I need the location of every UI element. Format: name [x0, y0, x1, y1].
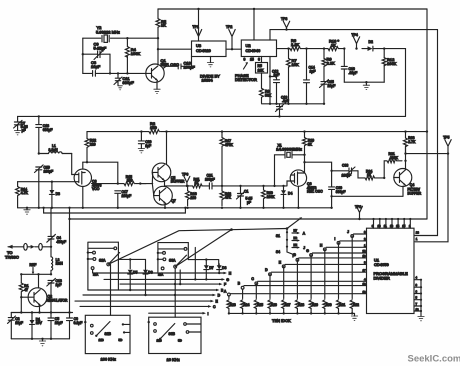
svg-text:100μF: 100μF — [122, 194, 132, 198]
wire: feedback vertical A — [426, 9, 428, 219]
wire: S3B riser — [174, 268, 176, 317]
capacitor C18 — [36, 116, 53, 153]
svg-text:23: 23 — [416, 231, 420, 235]
svg-text:R26: R26 — [271, 303, 277, 307]
svg-text:600μF: 600μF — [43, 128, 53, 132]
capacitor C12 — [270, 69, 280, 105]
wire: to Q5/Q7 bases — [140, 172, 154, 195]
capacitor C5 — [48, 313, 63, 339]
svg-text:R25: R25 — [257, 303, 263, 307]
svg-text:CD4059: CD4059 — [374, 262, 389, 267]
svg-text:CD4046: CD4046 — [246, 48, 261, 53]
svg-text:D7: D7 — [209, 266, 213, 270]
svg-text:G: G — [306, 249, 309, 253]
svg-text:47: 47 — [24, 288, 28, 292]
wire: top-right corner down to rail — [384, 49, 405, 117]
wire: U2 pin13 down — [269, 57, 271, 104]
capacitor C21 — [202, 174, 222, 189]
svg-text:R32: R32 — [353, 303, 359, 307]
svg-text:J: J — [347, 230, 349, 234]
svg-text:H5: H5 — [294, 243, 298, 247]
capacitor C9 (trimmer) — [83, 42, 110, 60]
svg-text:100K: 100K — [267, 195, 276, 199]
wire: U1 right pin stubs to output bus — [414, 280, 421, 311]
svg-text:H6: H6 — [294, 236, 298, 240]
svg-text:R23: R23 — [230, 303, 236, 307]
label R2 — [150, 121, 157, 130]
svg-text:pF: pF — [22, 129, 26, 133]
test point TP4 — [352, 33, 360, 50]
svg-text:400pF: 400pF — [57, 240, 67, 244]
wire: power input with feedthroughs — [8, 243, 51, 250]
bus wire B — [88, 289, 218, 291]
svg-text:10K: 10K — [258, 68, 265, 72]
resistor R9 — [322, 47, 335, 66]
svg-text:DIVIDER: DIVIDER — [374, 275, 390, 280]
wire: U1 top pin stubs — [374, 219, 411, 228]
svg-text:TP8: TP8 — [355, 205, 361, 209]
transistor Q7 — [154, 186, 176, 205]
pin numbers U1 right — [416, 276, 420, 312]
wire: ladder common rail — [229, 312, 355, 314]
svg-text:470K: 470K — [225, 143, 234, 147]
svg-text:R29: R29 — [312, 303, 318, 307]
capacitor C10 — [163, 61, 195, 70]
wire: C10 to U3 — [191, 57, 193, 67]
wire: D2/R12 bottom return — [344, 81, 384, 83]
wire: S2A wiper route — [108, 229, 287, 265]
wire: Q5 collector to rail — [166, 132, 168, 165]
pin numbers U1 top — [372, 224, 411, 228]
svg-text:HET. OSC: HET. OSC — [307, 190, 323, 194]
diode D5 — [118, 258, 145, 291]
svg-text:100K: 100K — [387, 61, 397, 66]
svg-text:10V: 10V — [36, 321, 43, 325]
svg-text:10K: 10K — [292, 62, 299, 67]
svg-text:1μF: 1μF — [274, 73, 280, 77]
resistor R11 — [187, 178, 202, 188]
resistor R18 — [220, 185, 232, 206]
resistor R7 — [287, 47, 299, 105]
svg-text:15: 15 — [402, 224, 406, 228]
diode D8 — [217, 264, 227, 274]
wire: S3A wiper diagonal — [175, 230, 231, 267]
svg-text:S1: S1 — [276, 234, 280, 238]
crystal X1 — [273, 143, 305, 187]
resistor R27 with tap E — [279, 260, 367, 314]
wire: feedback vertical B — [415, 30, 438, 236]
pin numbers U2 — [244, 58, 261, 62]
switch S1 wiper to divider bus — [276, 217, 302, 238]
wire: stub line below rail — [44, 208, 186, 213]
svg-text:0.1μF: 0.1μF — [74, 321, 83, 325]
ground (Q1 emitter) — [154, 81, 160, 93]
svg-text:10 KHz: 10 KHz — [167, 357, 180, 362]
wire: Q7 emitter to rail — [164, 204, 166, 208]
resistor R22 — [85, 132, 96, 163]
op-amp U2 CD4046 — [241, 40, 276, 57]
svg-text:12: 12 — [416, 308, 420, 312]
diode D4 — [281, 185, 292, 208]
op-amp U1 CD4059 programmable divider — [367, 228, 415, 313]
label REF with arrow — [30, 263, 37, 274]
wire: Q2 emitter down — [39, 306, 41, 313]
svg-text:100pF: 100pF — [184, 64, 196, 69]
resistor R28 with tap F — [293, 254, 367, 315]
diode D3 — [49, 181, 60, 208]
svg-text:REGULATOR: REGULATOR — [47, 299, 68, 303]
ground (main rail) — [24, 208, 30, 214]
resistor R26 with tap D — [265, 268, 366, 314]
svg-text:TP3: TP3 — [281, 17, 287, 21]
wire: Q3 drain output with resistor R15 inline — [92, 183, 125, 185]
bus wire E — [75, 300, 212, 302]
test point TP3 — [281, 17, 290, 30]
resistor R1 — [19, 274, 28, 312]
svg-text:14.36666MHz: 14.36666MHz — [276, 147, 302, 151]
resistor R20 — [303, 132, 315, 155]
wire: crystal top net y=38 — [83, 37, 158, 39]
capacitor C8 — [83, 60, 146, 76]
transistor Q1 REF OSC — [146, 58, 179, 82]
svg-text:2.2K: 2.2K — [291, 42, 300, 47]
label R15 — [126, 175, 133, 183]
svg-text:10: 10 — [378, 224, 382, 228]
svg-text:.1μF: .1μF — [282, 99, 289, 103]
svg-text:11B: 11B — [157, 339, 162, 343]
svg-text:I: I — [334, 237, 335, 241]
switch box S3B — [148, 317, 202, 353]
wire: bottom return rail — [11, 338, 69, 340]
wire: C9 right leg — [109, 54, 111, 73]
wire: lower rail y=131.6 with resistor R2 inline — [87, 131, 149, 133]
svg-text:100pF: 100pF — [44, 169, 54, 173]
svg-text:5.00222 MHz: 5.00222 MHz — [96, 29, 120, 34]
capacitor C4 (trimmer) — [47, 208, 66, 248]
svg-text:S3B: S3B — [169, 332, 176, 336]
svg-text:I: I — [208, 312, 209, 316]
transistor Q4 FILTER/BUFFER — [394, 169, 422, 196]
resistor R30 with tap H — [320, 243, 367, 314]
label: DIVIDE BY 16384 — [200, 74, 220, 83]
svg-text:R31: R31 — [339, 303, 345, 307]
svg-text:C1: C1 — [244, 189, 248, 193]
capacitor C2 (trimmer) — [8, 313, 23, 339]
switch S2A contact rails — [87, 242, 119, 290]
capacitor C19 (trimmer) — [35, 165, 54, 208]
ground (ladder) — [351, 312, 358, 320]
wire: L1 to Q3 gate1 — [72, 154, 75, 175]
capacitor C14 — [304, 47, 316, 105]
capacitor C20 — [138, 132, 151, 153]
svg-text:TP4: TP4 — [352, 33, 358, 37]
resistor R5 (collector load) — [156, 9, 167, 65]
svg-text:2.2K: 2.2K — [327, 61, 336, 66]
wire: U1 top pin bus — [70, 218, 428, 220]
label: PHASE DETECTOR with arrow — [235, 62, 257, 82]
wire: feedback vertical C — [415, 154, 448, 242]
svg-text:H7: H7 — [294, 229, 298, 233]
svg-text:15: 15 — [250, 58, 254, 62]
label: TO TR/33C — [5, 250, 19, 259]
pin numbers U1 left — [362, 230, 366, 294]
crystal Y2 — [96, 25, 120, 43]
svg-text:D3: D3 — [56, 192, 60, 196]
svg-text:2.7K: 2.7K — [408, 140, 416, 144]
wire: U3 out to U2 in — [226, 48, 241, 50]
wire: top net to U2 — [253, 9, 255, 40]
inductor L1 — [38, 144, 72, 155]
svg-text:10μF: 10μF — [15, 321, 23, 325]
wire: Q5 emitter / Q7 collector junction — [165, 181, 187, 187]
svg-text:100: 100 — [127, 179, 133, 183]
wire: output bus vertical — [420, 280, 422, 317]
svg-text:1mH: 1mH — [56, 262, 64, 266]
resistor R14 — [16, 182, 29, 208]
svg-text:5-25pF: 5-25pF — [94, 45, 107, 50]
switch S3A contact rails — [157, 243, 189, 277]
bus wire H — [93, 270, 232, 276]
svg-text:22: 22 — [362, 249, 366, 253]
capacitor C1 (trimmer) — [237, 185, 253, 208]
wire: S3A contact dropper — [194, 248, 196, 280]
svg-text:100 KHz: 100 KHz — [101, 356, 116, 361]
svg-text:1K: 1K — [161, 23, 166, 28]
svg-text:C33: C33 — [342, 164, 348, 168]
svg-text:pF: pF — [247, 200, 251, 204]
ground (U3) — [207, 57, 213, 67]
svg-text:R27: R27 — [285, 303, 291, 307]
svg-text:R28: R28 — [298, 303, 304, 307]
diode D6 — [143, 259, 153, 296]
resistor R16 — [186, 185, 197, 206]
svg-text:TR/33C: TR/33C — [5, 254, 19, 259]
wire: upper rail y=116.4 — [18, 115, 406, 117]
svg-text:1K: 1K — [331, 42, 336, 47]
wire: R33 bottom / Q4 collector / TP5 net — [406, 146, 449, 169]
resistor R25 with tap C — [251, 277, 366, 314]
svg-text:G: G — [226, 278, 229, 282]
svg-text:S4: S4 — [276, 250, 280, 254]
resistor R19 — [262, 185, 276, 208]
svg-text:D8: D8 — [222, 266, 226, 270]
svg-text:10μF: 10μF — [91, 64, 101, 69]
svg-text:17: 17 — [362, 268, 366, 272]
svg-text:F: F — [293, 254, 295, 258]
svg-text:REF: REF — [30, 263, 37, 267]
svg-text:100pF: 100pF — [342, 174, 352, 178]
capacitor C30 — [329, 170, 346, 208]
svg-text:F: F — [224, 283, 226, 287]
svg-text:11B: 11B — [99, 338, 104, 342]
bus wire I — [149, 312, 204, 314]
svg-text:13: 13 — [362, 290, 366, 294]
svg-text:200K: 200K — [390, 156, 399, 160]
resistor R31 with tap I — [334, 237, 366, 315]
svg-text:D2: D2 — [369, 40, 373, 44]
wire: Q3 gate2 bias net — [18, 181, 75, 183]
svg-text:330pF: 330pF — [336, 190, 346, 194]
capacitor C6 — [67, 313, 83, 339]
resistor R32 with tap J — [347, 230, 366, 315]
wire: Q2 collector up — [38, 274, 40, 288]
wire: R20/X1 to Q6 drain — [304, 155, 306, 173]
transistor Q6 40673 HET OSC (MOSFET) — [290, 170, 323, 208]
wire: R22 to Q3 drain net — [83, 162, 118, 183]
wire: U2 pin to comparator net y=29.6 — [270, 30, 438, 40]
capacitor C33 (trimmer) — [332, 164, 358, 178]
svg-text:16: 16 — [362, 254, 366, 258]
wire: regulator input net — [21, 273, 51, 275]
test point TP8 — [355, 205, 363, 220]
capacitor C13 — [276, 96, 289, 117]
diode D1 (zener) — [30, 313, 43, 339]
svg-text:220: 220 — [90, 142, 96, 146]
ground (regulator) — [39, 339, 45, 346]
resistor R4 — [125, 37, 159, 74]
transistor Q2 REGULATOR — [20, 288, 68, 307]
svg-text:TP1: TP1 — [193, 25, 199, 29]
svg-text:13: 13 — [390, 224, 394, 228]
resistor R6 — [277, 38, 329, 50]
resistor R8 — [260, 88, 272, 103]
svg-text:Q7: Q7 — [171, 199, 176, 203]
svg-text:150: 150 — [150, 125, 157, 130]
svg-text:DETECTOR: DETECTOR — [235, 77, 257, 82]
wire: mixer input net — [222, 181, 291, 186]
svg-text:18: 18 — [362, 282, 366, 286]
capacitor C15 (trimmer) — [320, 67, 336, 106]
test point TP2 — [226, 25, 235, 49]
svg-text:16384: 16384 — [202, 78, 214, 83]
svg-text:TP6: TP6 — [182, 172, 188, 176]
svg-text:TEN IDCK: TEN IDCK — [272, 318, 291, 323]
test point TP1 — [193, 9, 202, 41]
svg-text:1K: 1K — [195, 181, 200, 185]
wire: filter net y=103.8 — [262, 103, 325, 105]
wire: left branch vertical — [82, 38, 84, 73]
ground (D2 loop) — [363, 82, 369, 89]
svg-text:1K: 1K — [308, 142, 313, 146]
svg-text:CD4020: CD4020 — [196, 48, 211, 53]
transistor Q5 BUFFER — [152, 163, 185, 184]
svg-text:1μF: 1μF — [145, 144, 151, 148]
svg-text:11: 11 — [384, 224, 387, 228]
svg-text:330pF: 330pF — [123, 80, 135, 85]
svg-text:100: 100 — [190, 196, 196, 200]
resistor R5 (box) — [256, 57, 268, 89]
svg-text:14: 14 — [396, 224, 400, 228]
svg-text:R24: R24 — [244, 303, 250, 307]
svg-text:100K: 100K — [131, 51, 141, 56]
svg-text:TP5: TP5 — [443, 136, 449, 140]
test point TP6 — [182, 172, 190, 187]
svg-text:4.7K: 4.7K — [21, 191, 29, 195]
capacitor C7 (trimmer) — [14, 116, 28, 134]
diode D2 — [362, 40, 384, 51]
diode D7 — [188, 258, 218, 280]
svg-text:S3A: S3A — [169, 259, 176, 263]
svg-text:56K: 56K — [265, 93, 272, 97]
svg-text:1K: 1K — [367, 173, 372, 177]
svg-text:10μF: 10μF — [328, 84, 336, 88]
capacitor C13b (trimmer) — [47, 278, 62, 312]
switch S1/S4 contact column — [286, 229, 306, 253]
test point TP5 — [443, 136, 451, 154]
switch box S2B — [84, 315, 130, 353]
transistor Q3 40673 VCO (MOSFET) — [74, 162, 101, 208]
resistor R17 — [220, 132, 233, 187]
wire: Q4 emitter down — [402, 186, 404, 196]
bus wire D — [83, 294, 214, 296]
bus wire F — [120, 270, 226, 287]
resistor R29 with tap G — [306, 249, 366, 315]
svg-text:100μF: 100μF — [205, 177, 215, 181]
op-amp U3 CD4020 divider — [192, 41, 227, 57]
wire: REF rail vertical from ground rail — [69, 208, 71, 313]
svg-text:6: 6 — [258, 58, 260, 62]
svg-text:9: 9 — [244, 58, 246, 62]
svg-text:1μF: 1μF — [310, 69, 316, 73]
svg-text:S2A: S2A — [99, 258, 106, 262]
resistor R12 — [382, 47, 396, 82]
resistor R21 — [383, 152, 407, 179]
inductor L2 — [51, 247, 63, 274]
wire: het output net — [305, 162, 332, 171]
svg-text:BUFFER: BUFFER — [171, 180, 185, 184]
resistor R33 — [404, 132, 417, 154]
switch S4 contact — [276, 250, 296, 256]
capacitor C11 (trimmer) — [114, 72, 134, 90]
wire: S2B riser — [110, 265, 112, 316]
svg-text:BUFFER: BUFFER — [408, 191, 422, 195]
svg-text:VCO: VCO — [92, 187, 100, 191]
pin number U1 right feedback — [416, 231, 420, 241]
bus wire G — [104, 278, 223, 280]
svg-text:.01μF: .01μF — [349, 71, 358, 75]
capacitor C16 — [341, 47, 357, 82]
bus wire C — [80, 305, 210, 307]
svg-text:J: J — [303, 246, 305, 250]
svg-text:3.3μH: 3.3μH — [49, 148, 59, 152]
svg-text:D4: D4 — [288, 192, 292, 196]
svg-text:47K: 47K — [225, 196, 232, 200]
svg-text:10μF: 10μF — [55, 321, 63, 325]
wire: top feedback net y=9 — [158, 8, 427, 10]
ground (U1 output bus) — [418, 316, 424, 320]
svg-text:TP2: TP2 — [226, 25, 232, 29]
resistor R24 with tap B — [238, 282, 367, 315]
svg-text:S2B: S2B — [105, 332, 112, 336]
wire: Q1 collector to U3 input — [158, 48, 192, 50]
svg-text:SeekIC.com: SeekIC.com — [408, 354, 460, 365]
wire: main ground rail y=207.8 — [18, 207, 332, 209]
resistor R24 — [358, 169, 383, 180]
svg-text:R30: R30 — [326, 303, 332, 307]
capacitor C17 — [115, 190, 131, 208]
resistor R23 with tap A — [224, 289, 367, 314]
wire: regulator output net y=312.5 — [11, 312, 72, 314]
wire: C30 junction to Q4 emitter — [332, 195, 403, 197]
resistor R10 — [328, 38, 344, 50]
svg-text:1μF: 1μF — [56, 283, 62, 287]
